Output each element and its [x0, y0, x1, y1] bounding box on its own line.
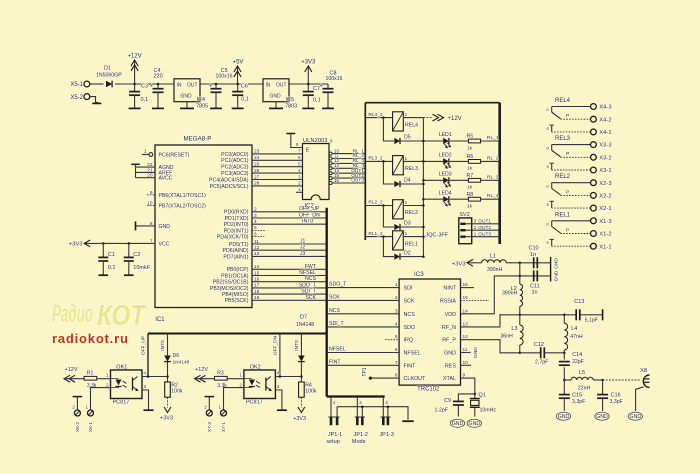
svg-text:GND: GND — [558, 414, 570, 420]
svg-text:LED2: LED2 — [439, 153, 452, 159]
svg-text:OUT2: OUT2 — [478, 225, 491, 231]
svg-text:VCC: VCC — [159, 241, 170, 247]
svg-text:X7-2: X7-2 — [207, 422, 213, 432]
svg-text:INT0: INT0 — [294, 340, 300, 351]
svg-text:1-2pF: 1-2pF — [435, 407, 449, 413]
svg-text:X3-3: X3-3 — [599, 143, 611, 149]
svg-text:PD3(INT1): PD3(INT1) — [224, 228, 249, 234]
svg-text:ULN2003: ULN2003 — [303, 138, 328, 144]
svg-text:C6: C6 — [241, 84, 248, 90]
svg-text:PD2(INT0): PD2(INT0) — [224, 222, 249, 228]
svg-text:X7-1: X7-1 — [221, 422, 227, 432]
svg-text:X5-2: X5-2 — [70, 95, 83, 101]
svg-text:GND: GND — [159, 224, 171, 230]
svg-text:0,1: 0,1 — [313, 98, 321, 104]
svg-text:8: 8 — [150, 221, 153, 227]
svg-text:RL1_2: RL1_2 — [368, 231, 382, 237]
svg-text:L4: L4 — [571, 326, 577, 332]
svg-text:0,1: 0,1 — [241, 97, 249, 103]
svg-text:OFF_UP: OFF_UP — [141, 336, 147, 355]
svg-text:SV2: SV2 — [459, 212, 469, 218]
svg-text:+: + — [209, 84, 212, 90]
svg-text:X3-2: X3-2 — [599, 155, 611, 161]
svg-text:J1: J1 — [300, 239, 306, 245]
svg-text:NINT: NINT — [443, 286, 456, 292]
svg-text:+12V: +12V — [65, 367, 78, 373]
svg-text:X4-2: X4-2 — [599, 117, 611, 123]
svg-text:IN: IN — [266, 83, 271, 89]
svg-text:XTAL: XTAL — [443, 376, 456, 382]
svg-text:RL2_2: RL2_2 — [368, 200, 382, 206]
svg-text:1k: 1k — [467, 185, 473, 191]
svg-text:J3: J3 — [300, 251, 306, 257]
svg-text:TP1: TP1 — [362, 367, 368, 376]
svg-text:NCS: NCS — [329, 308, 340, 314]
svg-text:5,1pF: 5,1pF — [585, 318, 598, 324]
svg-text:JQC-3FF: JQC-3FF — [426, 233, 449, 239]
svg-text:SDO_T: SDO_T — [299, 282, 317, 288]
svg-text:OUT: OUT — [187, 83, 198, 89]
svg-text:OK1: OK1 — [116, 365, 127, 371]
svg-text:X3-1: X3-1 — [599, 168, 611, 174]
svg-text:1N5060GP: 1N5060GP — [96, 72, 122, 78]
svg-text:100x16: 100x16 — [216, 74, 233, 80]
svg-text:1k: 1k — [467, 166, 473, 172]
svg-text:INT0: INT0 — [302, 219, 313, 225]
svg-text:X4-1: X4-1 — [599, 130, 611, 136]
svg-text:GND: GND — [269, 94, 281, 100]
svg-text:22: 22 — [147, 162, 153, 168]
svg-text:LED3: LED3 — [439, 172, 452, 178]
svg-text:R4: R4 — [305, 383, 312, 389]
svg-text:E: E — [306, 148, 310, 154]
svg-text:D5: D5 — [404, 135, 411, 141]
svg-text:PD5(T1): PD5(T1) — [229, 242, 249, 248]
svg-text:SDO: SDO — [404, 325, 416, 331]
svg-text:1N4148: 1N4148 — [296, 322, 314, 328]
svg-text:+: + — [150, 84, 153, 90]
svg-text:PB2(SS/OC1B): PB2(SS/OC1B) — [213, 280, 249, 286]
svg-text:IC3: IC3 — [414, 271, 424, 278]
svg-text:SDI_T: SDI_T — [329, 321, 345, 327]
svg-text:IC2: IC2 — [305, 204, 315, 210]
svg-text:REL3: REL3 — [405, 166, 418, 172]
svg-text:D3: D3 — [404, 221, 411, 227]
svg-text:Mode: Mode — [352, 439, 366, 445]
svg-text:OFF_DN: OFF_DN — [299, 212, 320, 218]
svg-text:X2-1: X2-1 — [599, 206, 611, 212]
svg-text:IN: IN — [177, 83, 182, 89]
svg-text:JP1-3: JP1-3 — [379, 432, 393, 438]
svg-text:LED4: LED4 — [439, 190, 452, 196]
svg-text:0,1: 0,1 — [108, 265, 116, 271]
svg-text:D1: D1 — [104, 66, 111, 72]
svg-text:FINT: FINT — [329, 359, 341, 365]
svg-text:X4-3: X4-3 — [599, 105, 611, 111]
svg-text:0,1: 0,1 — [141, 97, 149, 103]
svg-text:L1: L1 — [490, 254, 496, 260]
svg-text:REL1: REL1 — [405, 241, 418, 247]
svg-text:RES: RES — [445, 363, 456, 369]
svg-text:2: 2 — [359, 400, 362, 406]
svg-text:P: P — [566, 227, 569, 233]
svg-text:JP1-1: JP1-1 — [328, 432, 342, 438]
svg-text:3: 3 — [385, 400, 388, 406]
svg-text:GND: GND — [554, 258, 560, 269]
svg-text:X1-1: X1-1 — [599, 244, 611, 250]
svg-text:22pF: 22pF — [572, 359, 584, 365]
svg-text:OK2: OK2 — [250, 365, 261, 371]
svg-text:100k: 100k — [305, 389, 317, 395]
svg-text:NFSEL: NFSEL — [329, 347, 346, 353]
svg-text:SDI_T: SDI_T — [301, 289, 317, 295]
svg-text:P: P — [566, 113, 569, 119]
svg-text:C11: C11 — [530, 283, 540, 289]
svg-text:+12V: +12V — [448, 116, 462, 122]
svg-text:radiokot.ru: radiokot.ru — [52, 331, 129, 346]
svg-text:PC3(ADC3): PC3(ADC3) — [221, 171, 249, 177]
svg-text:PC817: PC817 — [113, 400, 130, 406]
svg-text:Q1: Q1 — [479, 393, 486, 399]
svg-text:+3V3: +3V3 — [160, 416, 173, 422]
svg-text:10: 10 — [147, 201, 153, 207]
svg-text:IC5: IC5 — [286, 97, 295, 103]
svg-text:PC4(ADC4/SDA): PC4(ADC4/SDA) — [209, 177, 249, 183]
svg-text:1n: 1n — [530, 252, 536, 258]
svg-text:Радио: Радио — [52, 300, 93, 328]
svg-text:REL2: REL2 — [555, 174, 571, 180]
svg-text:7803: 7803 — [285, 103, 297, 109]
svg-text:R8: R8 — [467, 192, 474, 198]
svg-text:7: 7 — [150, 238, 153, 244]
svg-text:D4: D4 — [404, 178, 411, 184]
svg-text:D6: D6 — [173, 353, 180, 359]
svg-text:PC817: PC817 — [246, 400, 263, 406]
svg-text:setup: setup — [326, 439, 339, 445]
svg-text:LED1: LED1 — [439, 132, 452, 138]
svg-text:PC1(ADC1): PC1(ADC1) — [221, 158, 249, 164]
svg-text:GND: GND — [452, 421, 464, 427]
svg-text:C1: C1 — [108, 252, 115, 258]
svg-text:X5-1: X5-1 — [70, 82, 83, 88]
svg-text:NFSEL: NFSEL — [404, 351, 421, 357]
svg-text:SDI: SDI — [404, 286, 413, 292]
svg-text:10mkF: 10mkF — [133, 265, 150, 271]
svg-text:1k: 1k — [467, 204, 473, 210]
svg-text:J2: J2 — [300, 245, 306, 251]
svg-text:INT0: INT0 — [160, 340, 166, 351]
svg-text:GND: GND — [596, 414, 608, 420]
svg-text:100x16: 100x16 — [326, 76, 343, 82]
svg-text:OUT: OUT — [276, 83, 287, 89]
svg-text:NCS: NCS — [404, 312, 416, 318]
svg-text:9: 9 — [150, 190, 153, 196]
svg-text:PC2(ADC2): PC2(ADC2) — [221, 165, 249, 171]
svg-text:REL3: REL3 — [555, 136, 571, 142]
svg-text:PB1(OC1A): PB1(OC1A) — [221, 273, 249, 279]
svg-text:X1-2: X1-2 — [599, 232, 611, 238]
svg-text:14: 14 — [463, 308, 469, 314]
svg-text:C12: C12 — [534, 342, 544, 348]
svg-text:RL_1: RL_1 — [487, 135, 499, 141]
svg-text:КОТ: КОТ — [97, 300, 147, 332]
svg-text:7805: 7805 — [196, 103, 208, 109]
svg-text:390nH: 390nH — [487, 267, 503, 273]
svg-text:SCK: SCK — [305, 295, 316, 301]
svg-text:REL4: REL4 — [555, 98, 571, 104]
svg-text:1k: 1k — [467, 145, 473, 151]
svg-text:D7: D7 — [300, 315, 307, 321]
svg-text:L3: L3 — [511, 326, 517, 332]
svg-text:RF_P: RF_P — [442, 338, 456, 344]
svg-text:PD0(RXD): PD0(RXD) — [224, 210, 249, 216]
svg-text:PB3(MOSI/OC2): PB3(MOSI/OC2) — [210, 286, 249, 292]
svg-text:1N4148: 1N4148 — [173, 359, 190, 365]
svg-text:C14: C14 — [572, 352, 582, 358]
svg-text:R5: R5 — [467, 134, 474, 140]
svg-text:3,3pF: 3,3pF — [610, 399, 623, 405]
svg-text:2,7pF: 2,7pF — [535, 360, 548, 366]
svg-text:OUT3: OUT3 — [351, 178, 364, 184]
svg-text:VDD: VDD — [445, 312, 456, 318]
svg-text:C2: C2 — [133, 252, 140, 258]
svg-text:RL_4: RL_4 — [487, 193, 499, 199]
svg-text:+: + — [320, 84, 323, 90]
svg-text:GND: GND — [469, 421, 481, 427]
svg-text:R3: R3 — [217, 371, 224, 377]
svg-text:22nH: 22nH — [578, 385, 591, 391]
svg-text:+3V3: +3V3 — [69, 242, 83, 248]
svg-text:FINT: FINT — [404, 363, 417, 369]
svg-text:C3: C3 — [141, 84, 148, 90]
svg-text:X1-3: X1-3 — [599, 219, 611, 225]
svg-text:C15: C15 — [572, 392, 582, 398]
svg-text:X2-2: X2-2 — [599, 194, 611, 200]
svg-text:AVCC: AVCC — [159, 176, 173, 182]
svg-text:+12V: +12V — [195, 367, 208, 373]
svg-text:16: 16 — [334, 178, 340, 183]
svg-text:X8: X8 — [640, 368, 647, 374]
svg-text:GND: GND — [630, 414, 642, 420]
svg-text:CLKOUT: CLKOUT — [404, 376, 427, 382]
svg-text:GND: GND — [554, 270, 560, 281]
svg-text:PD6(AIND): PD6(AIND) — [223, 248, 249, 254]
svg-text:RL4_2: RL4_2 — [368, 112, 382, 118]
svg-text:IRQ: IRQ — [404, 338, 414, 344]
svg-text:47nH: 47nH — [570, 334, 583, 340]
svg-text:D2: D2 — [404, 250, 411, 256]
svg-text:PB6(XTAL1/TOSC1): PB6(XTAL1/TOSC1) — [159, 193, 207, 199]
svg-text:+3V3: +3V3 — [301, 59, 316, 65]
svg-text:R1: R1 — [87, 371, 94, 377]
svg-text:C13: C13 — [574, 299, 584, 305]
svg-text:RL_2: RL_2 — [487, 155, 499, 161]
svg-text:SDO_T: SDO_T — [329, 282, 347, 288]
svg-text:NCS: NCS — [305, 276, 316, 282]
svg-text:OFF_DN: OFF_DN — [273, 335, 279, 355]
svg-text:SCK: SCK — [404, 298, 415, 304]
svg-text:IC4: IC4 — [197, 97, 206, 103]
svg-text:RL_3: RL_3 — [487, 174, 499, 180]
svg-text:PB7(XTAL2/TOSC2): PB7(XTAL2/TOSC2) — [159, 204, 207, 210]
svg-text:+12V: +12V — [128, 53, 142, 59]
svg-text:PC5(ADC5/SCL): PC5(ADC5/SCL) — [210, 184, 249, 190]
svg-text:C16: C16 — [611, 392, 621, 398]
svg-text:FWT: FWT — [305, 264, 317, 270]
svg-text:MEGA8-P: MEGA8-P — [184, 136, 212, 143]
svg-text:GND: GND — [180, 94, 192, 100]
svg-text:20: 20 — [147, 173, 153, 179]
svg-text:L5: L5 — [579, 370, 585, 376]
svg-text:X6-1: X6-1 — [88, 422, 94, 432]
svg-text:R2: R2 — [171, 383, 178, 389]
svg-text:1n: 1n — [532, 290, 538, 296]
svg-text:IC1: IC1 — [155, 317, 165, 323]
svg-text:+3V3: +3V3 — [452, 261, 466, 267]
svg-text:PD1(TXD): PD1(TXD) — [225, 216, 249, 222]
svg-text:1: 1 — [333, 400, 336, 406]
svg-text:REL2: REL2 — [405, 210, 418, 216]
svg-text:P: P — [566, 151, 569, 157]
svg-text:+3V3: +3V3 — [293, 416, 306, 422]
svg-text:NFSEL: NFSEL — [299, 270, 316, 276]
svg-text:PD4(XCK/T0): PD4(XCK/T0) — [217, 235, 249, 241]
svg-text:3,3pF: 3,3pF — [572, 399, 585, 405]
svg-text:X6-2: X6-2 — [75, 422, 81, 432]
svg-text:REL1: REL1 — [555, 212, 571, 218]
svg-text:PB4(MISO): PB4(MISO) — [222, 292, 249, 298]
svg-text:C10: C10 — [529, 246, 539, 252]
svg-text:SCK: SCK — [329, 294, 340, 300]
svg-text:JP1-2: JP1-2 — [354, 432, 368, 438]
svg-text:PB5(SCK): PB5(SCK) — [225, 298, 249, 304]
svg-text:RSSIA: RSSIA — [440, 298, 457, 304]
svg-text:21: 21 — [147, 167, 153, 173]
svg-text:36nH: 36nH — [500, 333, 513, 339]
svg-text:1: 1 — [144, 149, 147, 155]
svg-text:GND: GND — [473, 347, 479, 358]
svg-text:RL3_2: RL3_2 — [368, 156, 382, 162]
svg-text:OUT1: OUT1 — [478, 219, 491, 225]
svg-text:GND: GND — [444, 351, 456, 357]
svg-text:390nH: 390nH — [502, 291, 518, 297]
svg-text:REL4: REL4 — [405, 122, 418, 128]
svg-text:RF_N: RF_N — [442, 325, 456, 331]
svg-text:PB0(ICP): PB0(ICP) — [227, 267, 249, 273]
svg-text:PC0(ADC0): PC0(ADC0) — [221, 152, 249, 158]
svg-text:220: 220 — [154, 74, 163, 80]
svg-text:TRC102: TRC102 — [417, 386, 440, 392]
svg-text:C9: C9 — [444, 398, 451, 404]
svg-text:OUT3: OUT3 — [478, 232, 491, 238]
svg-text:+5V: +5V — [233, 59, 244, 65]
svg-text:100k: 100k — [171, 389, 183, 395]
svg-text:PD7(AIN1): PD7(AIN1) — [223, 254, 248, 260]
svg-text:R6: R6 — [467, 154, 474, 160]
svg-text:10mHz: 10mHz — [480, 407, 497, 413]
svg-text:X2-3: X2-3 — [599, 181, 611, 187]
svg-text:P: P — [566, 189, 569, 195]
svg-text:PC6(RESET): PC6(RESET) — [159, 153, 190, 159]
svg-text:R7: R7 — [467, 173, 474, 179]
